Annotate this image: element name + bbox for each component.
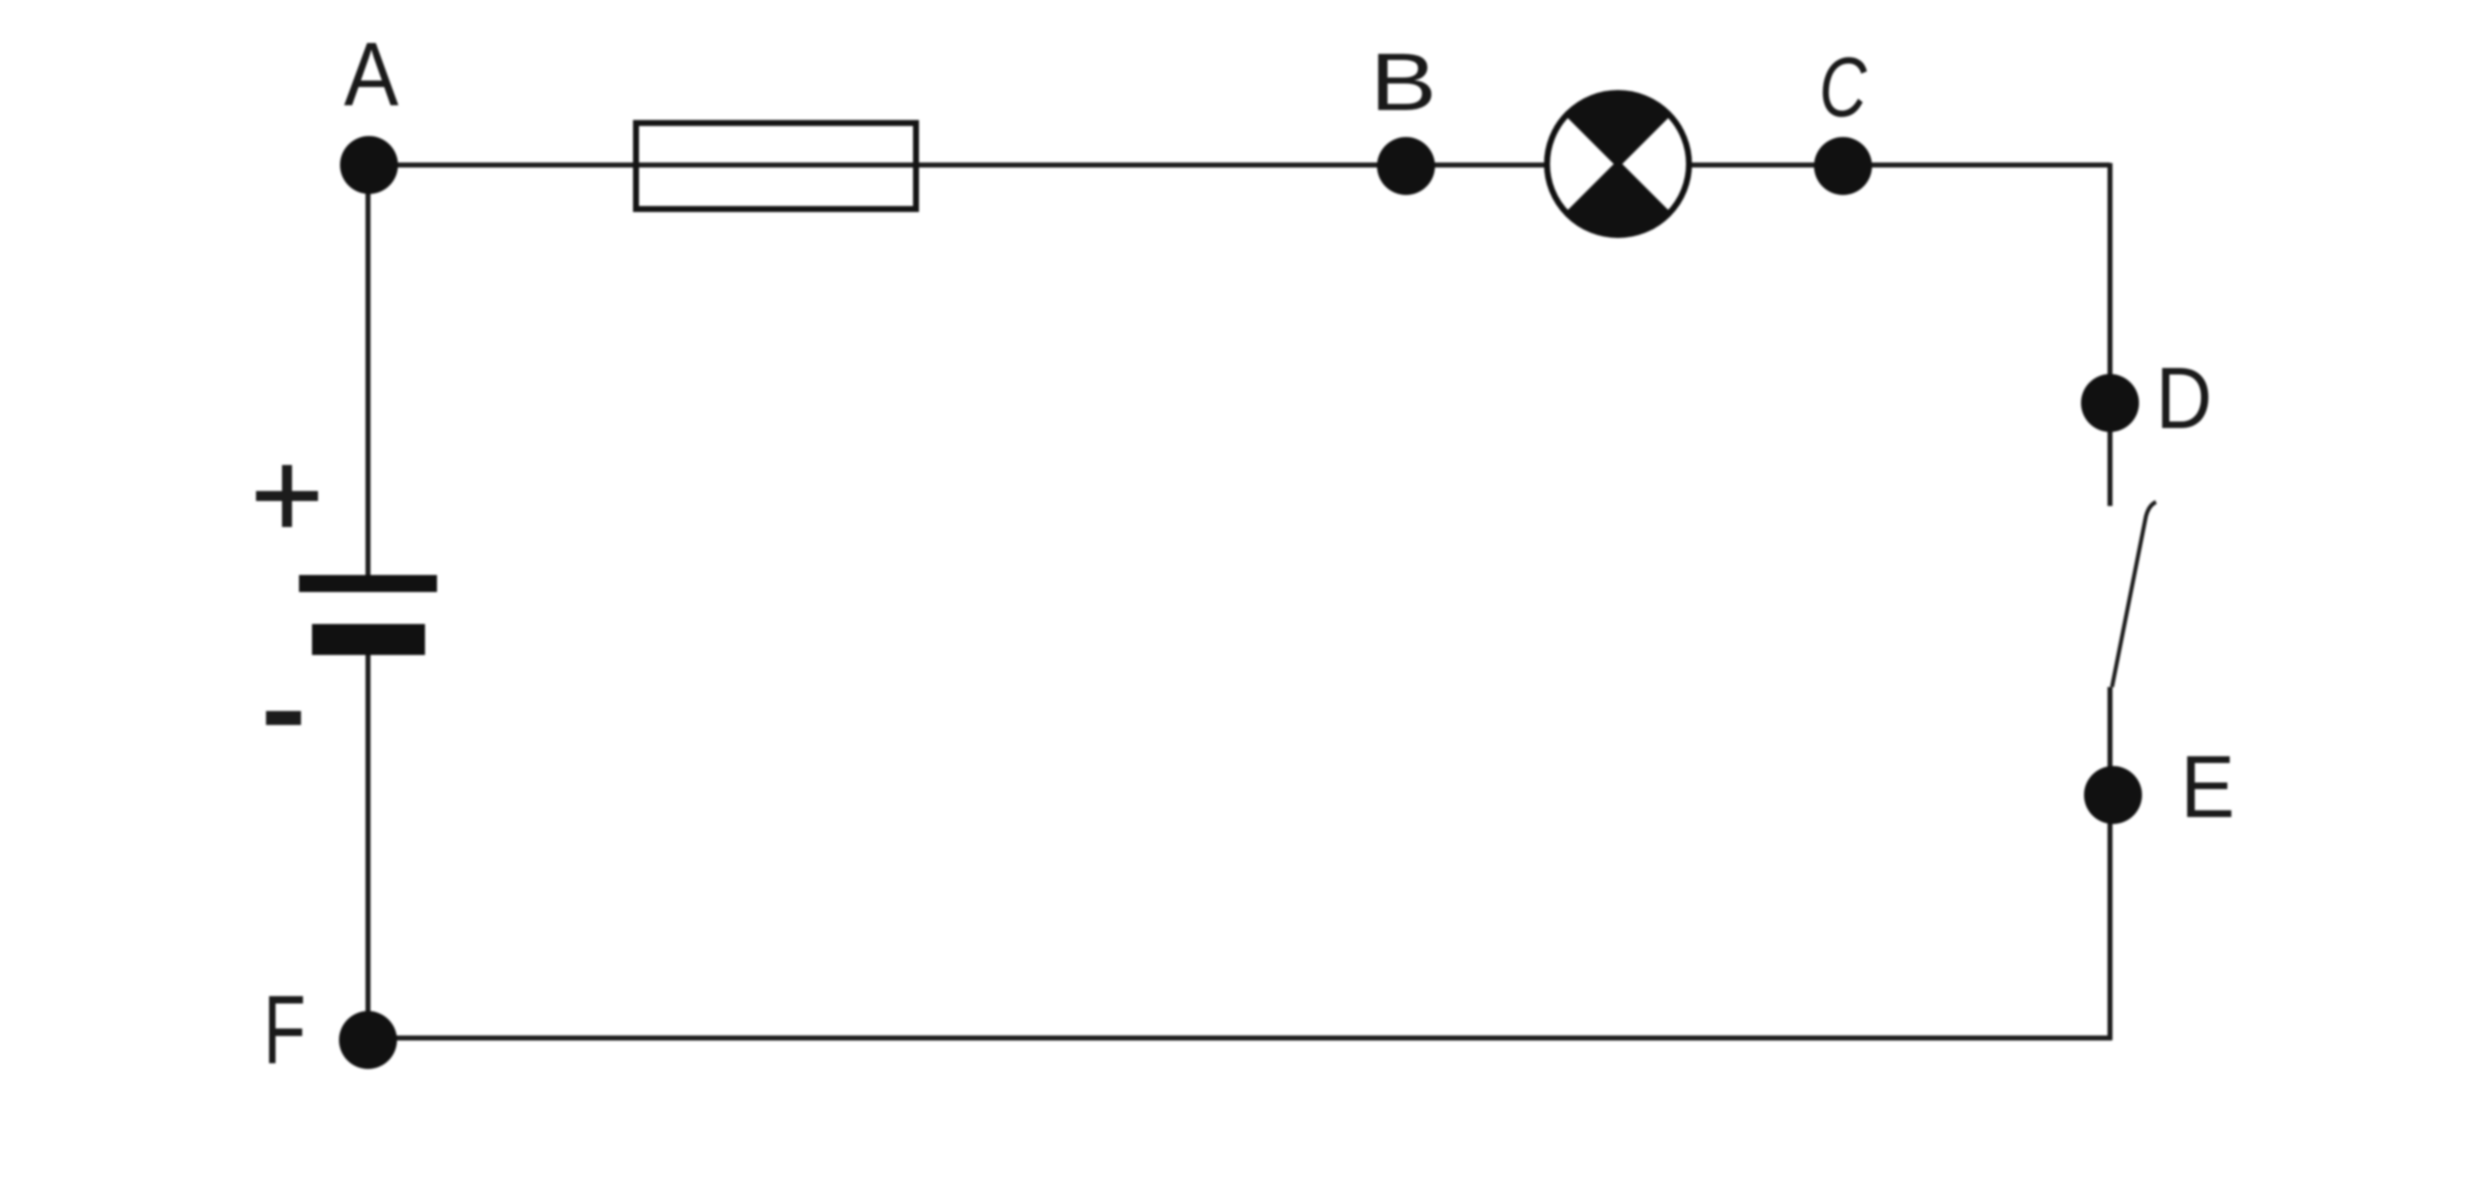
svg-text:D: D — [2156, 349, 2212, 447]
svg-text:B: B — [1370, 38, 1437, 128]
svg-text:A: A — [344, 24, 399, 124]
svg-text:C: C — [1819, 40, 1868, 135]
svg-text:F: F — [263, 976, 305, 1084]
svg-text:E: E — [2181, 738, 2235, 837]
